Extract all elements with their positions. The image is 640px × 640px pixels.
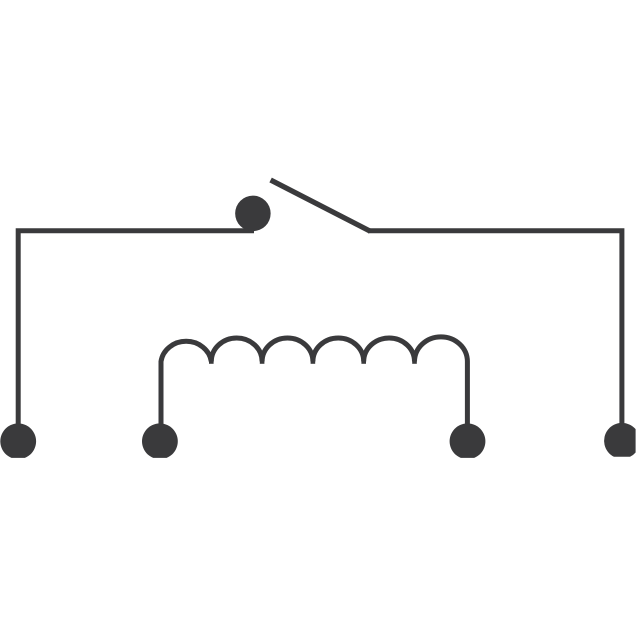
- wire: left branch from switch pole to pin 1 (top-left horizontal + left vertical): [18, 231, 254, 441]
- coil valley stub 5: [412, 356, 417, 364]
- wire: right branch from switch throw to pin 4 (top-right horizontal + right vertical): [368, 231, 622, 441]
- coil valley stub 1: [209, 356, 214, 364]
- switch pole contact dot: [235, 196, 271, 232]
- pin 1 terminal pad (bottom-left): [0, 423, 36, 457]
- coil valley stub 2: [260, 356, 265, 364]
- inductor relay coil L (6 humps): [161, 337, 467, 441]
- switch blade (open contact arm): [271, 180, 371, 231]
- coil valley stub 3: [311, 356, 316, 364]
- pin 4 terminal pad (bottom-right, flattened right side): [604, 423, 635, 457]
- pin 3 terminal pad (coil right): [450, 423, 486, 457]
- coil valley stub 4: [361, 356, 366, 364]
- pin 2 terminal pad (coil left): [142, 423, 178, 457]
